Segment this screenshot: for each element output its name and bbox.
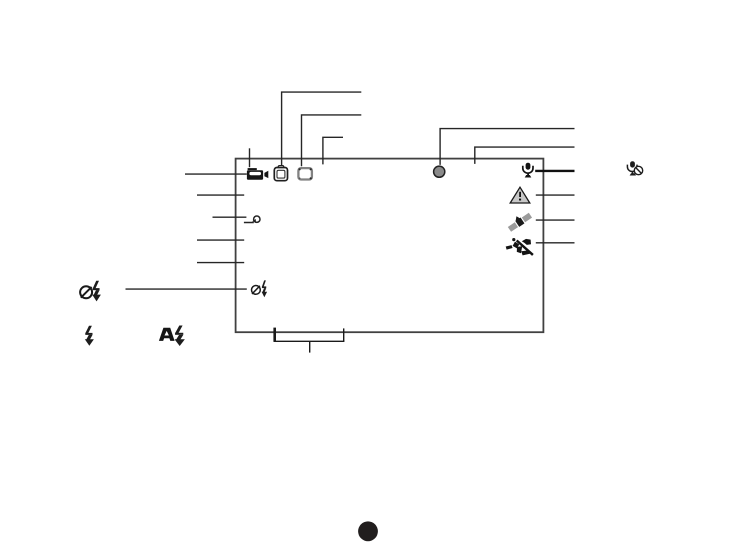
in-screen flash-off icon (252, 280, 268, 297)
runner with slash icon (506, 238, 533, 255)
warning triangle icon (510, 187, 530, 203)
mic icon (523, 163, 533, 178)
record dot (gray circle) (434, 166, 445, 177)
left callout line 2 (197, 194, 244, 196)
bottom bracket right tick (343, 328, 345, 341)
bottom bracket stem (309, 341, 311, 352)
page number dot (358, 521, 378, 541)
callout tick to camcorder icon (249, 148, 251, 167)
bottom bracket horizontal (274, 340, 345, 342)
callout line from satellite icon (536, 219, 575, 221)
left outside flash-off icon (80, 281, 101, 302)
callout line crossing top border right (475, 147, 575, 164)
icon B: photo mode square with tab (274, 166, 287, 181)
flash bolt icon (85, 326, 94, 346)
thick callout line from mic icon (535, 170, 574, 172)
loop (wind-up) icon (244, 216, 260, 223)
left callout line 3 (to loop icon) (213, 216, 247, 218)
bottom bracket left tick (273, 328, 276, 342)
callout line from warning icon (536, 194, 575, 196)
LCD monitor frame (236, 159, 544, 333)
satellite icon (506, 209, 533, 232)
left callout line 5 (197, 262, 244, 264)
left callout line 1 (to camcorder) (185, 173, 247, 175)
callout line to icon B (282, 92, 362, 165)
short callout line inside top (323, 137, 343, 164)
left callout line 4 (197, 239, 244, 241)
camcorder icon (247, 168, 268, 180)
callout line to icon C (302, 115, 362, 166)
callout line from runner icon (536, 242, 575, 244)
callout line to record dot (440, 129, 574, 165)
left callout line 6 (to flash-off icon) (126, 288, 247, 290)
auto flash icon (A + bolt) (159, 326, 185, 347)
icon C: gray rounded square (298, 168, 312, 179)
mic mute icon (right outside) (627, 161, 642, 175)
